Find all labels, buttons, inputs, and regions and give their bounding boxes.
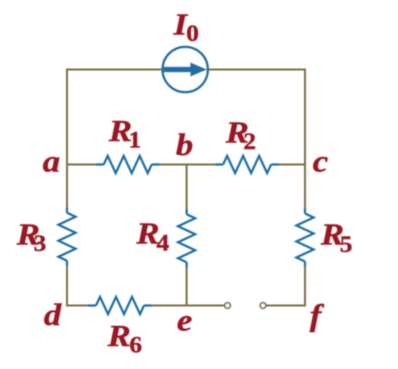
svg-text:5: 5 <box>340 232 353 258</box>
svg-text:4: 4 <box>156 231 169 257</box>
svg-text:1: 1 <box>128 128 141 154</box>
svg-text:b: b <box>176 129 193 163</box>
svg-text:6: 6 <box>129 333 142 359</box>
svg-text:e: e <box>177 304 192 338</box>
svg-text:2: 2 <box>243 129 256 155</box>
svg-text:a: a <box>43 145 60 179</box>
svg-text:R: R <box>107 320 131 354</box>
svg-text:d: d <box>44 299 62 333</box>
svg-text:3: 3 <box>34 231 47 257</box>
svg-text:c: c <box>313 145 329 179</box>
svg-text:0: 0 <box>186 21 199 47</box>
